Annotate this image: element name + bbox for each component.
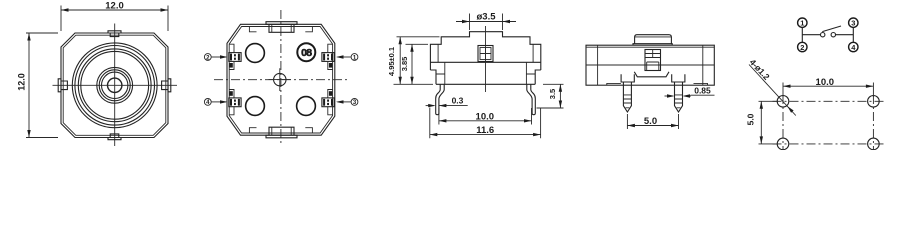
dimension 12.0 left: line: [28, 33, 30, 138]
front view center line: [485, 26, 487, 92]
left contact: [821, 33, 825, 37]
center hole: [108, 78, 122, 92]
side view between-leg profile: [634, 72, 669, 77]
wire right to contact: [836, 34, 854, 36]
svg-text:10.0: 10.0: [816, 77, 835, 88]
bottom view center line vertical (dash-dot): [280, 10, 282, 145]
right contact: [831, 33, 835, 37]
left leg: [623, 82, 631, 112]
inner circle top-left: [246, 44, 265, 63]
dimension 10.0: line: [439, 120, 532, 122]
terminal side step blocks: [229, 44, 234, 69]
front view body outline: [430, 32, 540, 70]
pin 2 symbol: [798, 42, 807, 51]
front view seam line: [430, 61, 540, 63]
switch lever: [822, 26, 841, 32]
right leg (s-bend prong): [531, 84, 536, 114]
terminal pin 4 (hatched, left bottom): [229, 98, 241, 107]
dimension 3.85: line: [411, 44, 413, 84]
bottom tab: [108, 134, 121, 140]
svg-text:0.85: 0.85: [694, 86, 711, 96]
front view inner side lines: [438, 44, 533, 62]
dimension o3.5: line with outside arrows: [456, 21, 516, 23]
side view center column: [645, 50, 661, 71]
top view center line vertical: [114, 24, 116, 147]
wire left to contact: [802, 34, 820, 36]
pad bottom-right: [868, 138, 880, 150]
dimension 0.85: arrows and text: [665, 95, 673, 97]
right leg collar: [672, 74, 685, 82]
svg-text:2: 2: [800, 43, 804, 52]
svg-text:12.0: 12.0: [105, 1, 124, 12]
pin label 3: [351, 99, 358, 106]
right tab: [162, 79, 171, 92]
dimension 5.0 pcb: extension lines: [759, 101, 779, 144]
dimension 10.0: extension lines: [439, 108, 532, 125]
left tab: [58, 79, 67, 92]
top tab: [108, 31, 121, 37]
front view internal verticals: [436, 62, 535, 84]
pin 4 symbol: [849, 42, 858, 51]
terminal pin 3 (hatched, right bottom): [322, 98, 334, 107]
pcb layout: dash-dot rect horizontals: [773, 101, 885, 144]
pad bottom-left: [777, 138, 789, 150]
top view body outline (chamfered square): [61, 33, 168, 138]
pcb layout: dash-dot rect verticals: [783, 95, 873, 150]
side view stem collar: [633, 44, 672, 46]
dimension 10.0 pcb: line: [783, 85, 873, 87]
dimension 12.0 top: line: [61, 9, 168, 11]
top view body inner outline: [63, 35, 166, 135]
stamp 08: [297, 43, 315, 61]
svg-text:10.0: 10.0: [476, 111, 495, 122]
dimension 11.6: line: [430, 134, 541, 136]
pin label 1: [351, 54, 358, 61]
terminal pin 1 (hatched, right top): [322, 53, 334, 62]
dimension 5.0: line: [627, 125, 678, 127]
outer ring band: [72, 43, 157, 128]
dimension 5.0: extension lines: [627, 114, 678, 129]
bottom view body outline (octagon): [227, 24, 335, 135]
left leg (s-bend prong): [436, 84, 441, 114]
middle ring band: [97, 67, 133, 103]
dimension 12.0 top: extension lines: [61, 6, 168, 32]
svg-text:5.0: 5.0: [746, 113, 756, 125]
right leg: [675, 82, 683, 112]
side view bottom steps: [607, 83, 708, 85]
bottom view inner outline: [229, 27, 332, 134]
pin label 2: [204, 54, 211, 61]
svg-text:4.95±0.1: 4.95±0.1: [387, 47, 396, 76]
leader 4-o1.2: [749, 65, 796, 116]
svg-text:11.6: 11.6: [476, 125, 494, 136]
side view stem: [635, 35, 672, 44]
side view body outline: [586, 45, 714, 85]
dimension 5.0 pcb: line: [760, 101, 762, 144]
svg-text:1: 1: [800, 19, 804, 28]
center pivot circle with cross: [274, 73, 286, 85]
front view base: [430, 70, 540, 84]
dimension 12.0 left: extension lines: [26, 33, 58, 138]
svg-text:08: 08: [301, 47, 312, 59]
wire pins 1-2: [801, 28, 803, 42]
dimension 4.95 +-0.1: line: [399, 37, 401, 85]
pad top-right: [868, 96, 880, 108]
top tab: [266, 22, 297, 33]
top view center line horizontal: [53, 84, 178, 86]
pin 3 symbol: [849, 18, 858, 27]
dimension o3.5: extension lines: [470, 14, 503, 31]
left leg collar: [621, 74, 634, 82]
dimension 3.5 right: line: [559, 84, 561, 108]
inner circle bottom-right: [297, 97, 316, 116]
svg-text:5.0: 5.0: [644, 116, 657, 127]
dimension 3.85: extension line: [406, 43, 429, 45]
dimension 3.5 right: extension lines: [537, 84, 564, 108]
bottom tab: [266, 127, 297, 138]
wire pins 3-4: [852, 28, 854, 42]
svg-text:ø3.5: ø3.5: [476, 12, 496, 23]
svg-text:0.3: 0.3: [452, 95, 464, 105]
inner circle bottom-left: [246, 97, 265, 116]
terminal pin 2 (hatched, left top): [229, 53, 241, 62]
bottom view center line horizontal (dash-dot): [214, 79, 348, 81]
svg-text:3: 3: [851, 19, 855, 28]
bottom view corner step notches: [249, 27, 312, 134]
side view body inner lines: [586, 45, 714, 85]
pad top-left: [777, 96, 789, 108]
svg-text:3.5: 3.5: [548, 89, 557, 99]
svg-text:3.85: 3.85: [400, 57, 409, 72]
svg-text:12.0: 12.0: [16, 73, 26, 91]
pin label 4: [204, 99, 211, 106]
dimension 10.0 pcb: extension lines: [783, 83, 873, 98]
dimension 4.95 +-0.1: extension lines: [394, 37, 440, 85]
pin 1 symbol: [798, 18, 807, 27]
plunger inner detail: [478, 46, 493, 62]
dimension 11.6: extension lines: [430, 108, 541, 139]
